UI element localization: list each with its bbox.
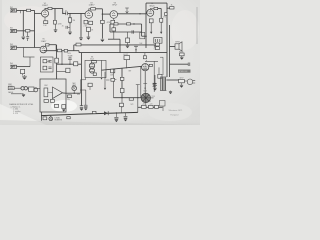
resistor R11 V4 plate (154, 7, 158, 9)
fuse F1 (180, 53, 185, 56)
ground fuse (180, 57, 183, 59)
triode V1 envelope (41, 10, 48, 17)
wire jack ground rail (22, 10, 24, 36)
plug P4 wall plug (187, 79, 195, 85)
wire J3 to V5 grid (17, 47, 41, 49)
node bus junction (116, 112, 117, 113)
capacitor C10 in box (48, 67, 51, 69)
resistor R22 on rail (57, 49, 61, 52)
resistor R10 V3 cathode (111, 20, 115, 24)
node intensity tap (121, 97, 122, 98)
wire cable return (11, 93, 21, 95)
wire R19 stem (87, 31, 89, 36)
switch S2 remote (29, 87, 34, 91)
capacitor C16 module (50, 100, 54, 103)
wire loop left leg (109, 24, 111, 32)
wire filter box stem (120, 107, 122, 113)
svg-text:+20: +20 (150, 103, 153, 105)
wire upper supply tap (145, 60, 158, 62)
resistor R1 grid 68K (27, 9, 31, 11)
node mixer junction 3 (75, 63, 76, 64)
wire V6 right vertical (101, 61, 103, 77)
ground bus cap (115, 120, 118, 122)
arrow connection B (160, 32, 162, 34)
capacitor C23 filter (155, 105, 159, 108)
wire output box top edge (146, 2, 167, 4)
wire C11 lower stem (69, 60, 71, 64)
capacitor C7 on feed (76, 43, 81, 46)
node HV junction (137, 97, 138, 98)
resistor R7 V2 cathode (84, 20, 88, 24)
wire plate to coupling cap (62, 9, 64, 14)
capacitor C11 drop (68, 58, 72, 60)
wire ch2 link down (29, 57, 31, 67)
wire V4 plate riser (150, 8, 154, 11)
connector P5 socket (34, 88, 38, 92)
wire V1 bypass drop (55, 24, 57, 29)
pentode V4 envelope (147, 9, 154, 16)
capacitor C13 HT (153, 84, 157, 86)
arrow connection A (150, 32, 152, 34)
ground V2 grid leak (79, 38, 83, 40)
resistor R29 in box (43, 66, 47, 70)
capacitor C20 (124, 116, 128, 118)
wire plug to switch (28, 87, 29, 89)
svg-text:NE2: NE2 (72, 83, 75, 85)
wire tap drop to bus (119, 39, 121, 52)
resistor R2 V1 cathode (44, 21, 48, 24)
svg-text:+40: +40 (142, 103, 145, 105)
ground input jacks (22, 37, 26, 39)
ground channel2 (22, 76, 27, 79)
wire grid leak drop (69, 13, 71, 17)
tick on right column (152, 82, 156, 84)
transformer T2 power windings (161, 78, 166, 91)
resistor R18 tone (126, 38, 130, 43)
ground tone branch (126, 45, 130, 47)
speaker SP1 (175, 42, 182, 51)
svg-text:6BQ5: 6BQ5 (149, 5, 155, 7)
svg-text:TONE: TONE (68, 55, 74, 57)
wire V4 screen run (158, 8, 162, 10)
capacitor C8 feed drop (134, 45, 138, 47)
rectifier V8 internals (141, 93, 150, 102)
input jack J2 (10, 29, 17, 32)
wire lower rail ch2 (44, 50, 79, 52)
svg-text:25: 25 (62, 25, 64, 27)
resistor R41 module (44, 88, 48, 97)
wire out corner up (79, 80, 81, 93)
input jack J3 (10, 46, 17, 49)
wire J4 line (17, 66, 31, 68)
capacitor C21 filter (142, 105, 147, 108)
wire B+ distribution bus (79, 52, 167, 54)
wire C1 to V2 grid (68, 12, 85, 14)
tube V4 electrodes (149, 10, 153, 14)
resistor R12 screen lower (160, 18, 163, 22)
tube V9 electrodes (143, 64, 147, 69)
wire HV line (114, 97, 142, 99)
resistor R3 V1 plate (48, 7, 52, 9)
capacitor C18 module (62, 105, 66, 109)
ground R19 (87, 37, 91, 39)
ground mains side (180, 85, 183, 87)
tube V5 electrodes (42, 47, 46, 51)
wire loop right leg (141, 24, 143, 36)
resistor R27 J4 load (21, 69, 25, 73)
wire J2 to bus (17, 30, 35, 32)
tube V6A electrodes (90, 63, 94, 67)
resistor R44 near lamp (43, 117, 47, 120)
wire ground T stem (24, 75, 26, 76)
tube V3 electrodes (112, 12, 116, 16)
resistor R30 vol pot (55, 58, 59, 63)
shield box V6 (85, 60, 106, 77)
wire cathode drop to OT (150, 23, 152, 32)
ground cap bank 2 (84, 108, 87, 110)
resistor R24 stack upper (156, 43, 160, 46)
wire mixer vertical (56, 45, 58, 79)
wire corner box edge (160, 57, 163, 75)
resistor R19 V2 bias (86, 27, 90, 31)
corner box small (160, 101, 166, 107)
resistor R38 on HV (129, 98, 133, 100)
connector tick (136, 84, 140, 86)
resistor R5 grid leak 1M (68, 18, 71, 22)
resistor R17 loop b (127, 23, 131, 25)
switch S1 foot (124, 56, 130, 60)
wire R18 to ground (127, 43, 129, 45)
wire V2 plate run (96, 8, 103, 10)
wire B+ rail second (169, 25, 171, 77)
wire T2 top bar (160, 76, 166, 78)
wire upper feed line (74, 44, 157, 46)
connector P2 plug (21, 87, 24, 90)
wire F1 stem (181, 56, 183, 57)
wire J1 sleeve stub (20, 10, 22, 13)
wire C20 stem (125, 113, 127, 117)
switch S3 on-off (179, 79, 185, 82)
resistor R40 column (111, 78, 115, 81)
resistor R6 V2 plate (91, 8, 96, 10)
amplifier A1 triangle (53, 87, 63, 99)
svg-text:INT: INT (129, 70, 132, 72)
wire tone branch (127, 32, 129, 38)
transformer T1 output (154, 38, 162, 44)
tube V9 envelope (142, 64, 149, 71)
capacitor C24 column (153, 85, 156, 87)
wire osc output line (102, 66, 142, 70)
resistor R26 below bus (143, 56, 146, 59)
resistor R8 V2 cathode b (89, 21, 93, 24)
wire intensity ground leg (121, 98, 123, 105)
capacitor C6 small (26, 37, 29, 39)
resistor R45 on bus (92, 111, 96, 113)
diode D1 (104, 111, 108, 115)
tube V2 electrodes (87, 12, 91, 16)
node mixer junction 1 (61, 63, 62, 64)
capacitor C2 loop (132, 30, 134, 34)
module box vibrato amplifier (40, 79, 66, 112)
wire R5 lower to ground (69, 24, 71, 31)
resistor R14 feedback (165, 13, 168, 16)
wire divider to ground (101, 24, 103, 39)
wire box internal link (47, 60, 50, 62)
svg-text:IN1: IN1 (10, 7, 13, 9)
tick aux (106, 79, 110, 81)
wire rail to speaker (170, 46, 176, 48)
capacitor C5 bypass (66, 26, 68, 29)
triode V5 envelope (40, 46, 47, 53)
wire screen drop (160, 9, 162, 19)
switch enclosure S4 (140, 32, 145, 38)
triode V2 envelope (85, 11, 93, 19)
svg-text:Fairyland: Fairyland (171, 113, 179, 116)
wire switch to plug (184, 80, 187, 82)
ground module (62, 109, 65, 111)
wire mixer cross run (57, 63, 81, 65)
wire R35 drop long (104, 72, 106, 88)
capacitor C12 aux (188, 62, 190, 66)
capacitor C1 coupling (66, 12, 68, 16)
wire V3 cathode stem (113, 18, 115, 20)
wire V2 to V3 grid (102, 13, 110, 15)
wire bus cap stem (115, 113, 117, 117)
wire switch to module (34, 87, 40, 89)
terminal lug T1 (154, 45, 157, 47)
wire V3 plate to V4 grid (118, 13, 147, 15)
wire J1 to grid bus (17, 9, 35, 11)
ground cap bank 1 (80, 108, 83, 110)
resistor R36 intensity leg (120, 88, 124, 92)
resistor R23 on rail (64, 49, 67, 52)
wire V8 output stem (145, 103, 147, 106)
wire B plus node drop (137, 98, 139, 113)
wire box drop (158, 67, 160, 74)
wire T2 bottom bar (160, 90, 166, 92)
wire output box left edge (145, 3, 147, 48)
triode V6A envelope (89, 63, 94, 68)
wire shield stub across (81, 79, 86, 81)
wire loop lower (110, 31, 142, 33)
resistor R33 V6 plate (91, 61, 96, 63)
wire HT winding drop (154, 75, 156, 84)
svg-text:450V 450V: 450V 450V (143, 101, 152, 103)
svg-text:1K: 1K (171, 5, 173, 7)
input jack J4 (10, 65, 17, 68)
wire mains ground stem (181, 83, 183, 85)
capacitor C9 in box (48, 61, 51, 63)
svg-text:IN3: IN3 (10, 44, 13, 46)
node V2 output junction (102, 13, 103, 14)
wire module output (63, 92, 67, 94)
wire V5 plate run (49, 44, 56, 46)
wire V2 plate riser (89, 9, 91, 11)
resistor R46 intensity upper (120, 77, 124, 80)
svg-text:INTERLOCK: INTERLOCK (179, 71, 189, 73)
tick supply tap (146, 60, 148, 61)
wire screen drop to OT (160, 22, 162, 32)
wire rail cross (80, 89, 86, 91)
arrow ground intensity (121, 106, 123, 108)
capacitor C15 bank (84, 105, 88, 107)
capacitor C19 bus (114, 117, 118, 119)
pilot lamp PL1 (49, 117, 53, 121)
tube V1 electrodes (43, 11, 47, 15)
wire page fold line (196, 7, 198, 44)
resistor R16 loop a (114, 23, 118, 25)
terminal box filter (119, 103, 123, 106)
wire module link (48, 92, 53, 94)
resistor R37 beside V9 (149, 64, 152, 66)
connector P3 socket (24, 87, 27, 90)
ground V1 cathode (54, 30, 58, 32)
ground HT cap (153, 88, 156, 90)
triode V6B envelope (90, 68, 95, 73)
wire C13 stem (154, 86, 156, 88)
svg-text:6X4: 6X4 (77, 94, 80, 96)
wire B plus line (138, 106, 163, 108)
node mixer rail tap (56, 50, 57, 51)
tick on V9 drop (143, 83, 147, 85)
wire right column drop (153, 61, 155, 92)
resistor R21 V5 plate (45, 44, 49, 46)
wire rail jog (78, 51, 80, 53)
resistor R28 in box (43, 60, 47, 63)
capacitor C17 module (55, 104, 59, 107)
wire column x113 (113, 69, 115, 98)
svg-text:5Y3: 5Y3 (152, 96, 155, 98)
capacitor C14 bank (80, 106, 84, 108)
capacitor C22 filter (149, 105, 154, 108)
network box tone stack (40, 57, 53, 72)
svg-text:Silvertone 1471: Silvertone 1471 (169, 109, 184, 112)
wire junction drop to rectifier (140, 66, 142, 97)
wire V3 column lower (113, 31, 115, 39)
svg-text:IN4: IN4 (10, 63, 13, 65)
jack J5 remote (8, 87, 14, 90)
tick on column (111, 79, 117, 81)
node V4 grid junction (139, 13, 140, 14)
wire left rail long (81, 53, 83, 106)
wire V7 stem (73, 91, 75, 94)
wire R20 lower stem (27, 32, 29, 36)
resistor R4 decoupling (54, 20, 57, 24)
lamp V7 marks (73, 87, 76, 90)
node mixer junction 2 (69, 63, 70, 64)
wire R5 lower stem (69, 22, 71, 24)
wire V8 side lead (151, 97, 154, 99)
wire C8 stem to bus (135, 47, 137, 53)
wire module out run (66, 92, 80, 94)
svg-text:IN2: IN2 (10, 27, 13, 29)
ground transformer (169, 92, 172, 94)
wire V3 column upper (113, 24, 115, 28)
wire aux run (170, 63, 189, 65)
wire remote lead (14, 87, 21, 89)
resistor R20 grid 68K (26, 30, 30, 33)
wire V2 grid return (80, 13, 82, 37)
rectifier V8 envelope (141, 93, 150, 102)
wire lower tap (108, 38, 120, 40)
svg-text:5Y3: 5Y3 (143, 90, 146, 92)
resistor R32 (66, 68, 70, 72)
svg-text:12AX7: 12AX7 (41, 40, 47, 43)
wire mixer low run (57, 71, 66, 73)
wire shield box stub (85, 78, 87, 80)
wire plate node run (52, 8, 63, 10)
resistor R13 V4 cathode (149, 19, 153, 23)
triode V3 envelope (110, 11, 118, 19)
terminal box lower (158, 74, 162, 78)
svg-text:5Y3: 5Y3 (131, 104, 134, 106)
resistor R42 module lower (44, 100, 48, 103)
ground remote (22, 94, 25, 96)
arrow supply tap (104, 88, 106, 90)
wire C6 tail (27, 38, 29, 41)
wire return bend (21, 93, 23, 95)
svg-text:.02: .02 (65, 11, 67, 13)
wire ch2 link upper (22, 48, 24, 58)
wire C5 stub (68, 26, 70, 28)
tube V6B electrodes (90, 68, 94, 72)
node loop junction (133, 23, 134, 24)
wire C11 upper stem (69, 57, 71, 58)
resistor R34 V6 cathode (93, 73, 96, 76)
pilot lamp PL1 cross (50, 118, 52, 120)
resistor R31 (74, 62, 78, 66)
wire HV branch up (137, 85, 139, 98)
svg-text:FTSW: FTSW (8, 86, 13, 88)
wire loop to box edge (142, 35, 147, 37)
wire V9 plate drop (144, 71, 146, 95)
wire corner box stem (162, 106, 164, 111)
svg-text:12AX7: 12AX7 (88, 4, 95, 7)
wire module left edge lower (41, 112, 43, 121)
node V1 output junction (62, 13, 63, 14)
wire shared grid bus vertical (34, 10, 36, 47)
input jack J1 (10, 9, 17, 12)
wire R26 stem (144, 53, 146, 56)
ground R5 branch (68, 32, 72, 34)
wire mixer vertical b (61, 51, 63, 64)
transformer T1 winding marks (155, 39, 159, 42)
resistor R9 divider (101, 20, 105, 23)
wire intensity branch (121, 68, 123, 97)
potentiometer wiper arrow (125, 8, 129, 13)
node V7 tap (74, 93, 75, 94)
wire V1 cathode stem (44, 17, 46, 21)
wire V2 output drop (101, 9, 103, 20)
resistor R43 out (68, 95, 72, 98)
resistor R25 stack lower (156, 47, 160, 50)
resistor R15 supply dropper (170, 7, 174, 9)
wire T2 ground stem (170, 91, 172, 92)
wire to C1 (63, 12, 66, 14)
wire upper feed drop (73, 45, 75, 51)
ground C20 (124, 119, 127, 121)
svg-text:12AX7: 12AX7 (42, 4, 49, 7)
wire lamp stem (50, 115, 52, 117)
wire B+ entry (167, 7, 170, 9)
resistor R39 feed (88, 83, 92, 86)
wire R27 stem (22, 74, 24, 76)
arrow V6 branch (100, 78, 102, 80)
wire heater bus (41, 112, 138, 115)
node C8 bus tap (135, 49, 136, 50)
wire plate corner drop (55, 45, 57, 51)
capacitor C4 column (112, 28, 116, 31)
